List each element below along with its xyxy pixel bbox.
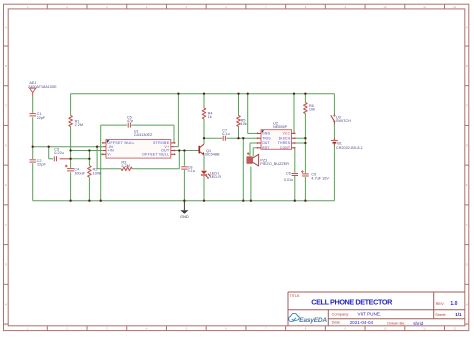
svg-text:Company:: Company: <box>332 312 350 317</box>
svg-text:RST: RST <box>262 146 269 150</box>
svg-text:SWITCH: SWITCH <box>336 119 351 123</box>
svg-text:C6: C6 <box>286 172 291 176</box>
svg-text:BC548B: BC548B <box>205 153 220 157</box>
svg-text:Sheet:: Sheet: <box>435 312 446 317</box>
svg-text:PIEZO_BUZZER: PIEZO_BUZZER <box>260 162 289 166</box>
svg-text:4.7uF 16V: 4.7uF 16V <box>311 176 329 180</box>
svg-text:TRIG: TRIG <box>262 136 271 140</box>
svg-text:0.01u: 0.01u <box>284 178 294 182</box>
svg-text:47p: 47p <box>127 119 133 123</box>
svg-text:Drawn By:: Drawn By: <box>387 321 405 326</box>
svg-text:GND: GND <box>180 215 189 219</box>
svg-text:22pF: 22pF <box>37 163 46 167</box>
svg-text:V-: V- <box>107 153 111 157</box>
svg-text:Date:: Date: <box>332 319 341 324</box>
svg-text:CELL PHONE DETECTOR: CELL PHONE DETECTOR <box>311 298 393 307</box>
svg-text:THRES: THRES <box>278 141 290 145</box>
svg-text:Q1: Q1 <box>206 149 211 153</box>
svg-text:1k: 1k <box>208 115 212 119</box>
svg-text:DISCH: DISCH <box>279 136 291 140</box>
svg-text:1.0: 1.0 <box>450 301 457 307</box>
svg-text:VCC: VCC <box>283 132 291 136</box>
svg-text:2.2M: 2.2M <box>121 164 129 168</box>
svg-text:OFFSET NULL: OFFSET NULL <box>107 141 134 145</box>
svg-text:OUT: OUT <box>161 149 169 153</box>
svg-text:CR2032-BS-8-1: CR2032-BS-8-1 <box>336 146 363 150</box>
svg-text:0.1u: 0.1u <box>222 132 229 136</box>
svg-text:100uF: 100uF <box>74 171 85 175</box>
svg-text:0.1u: 0.1u <box>188 169 195 173</box>
svg-text:2400AT18A100E: 2400AT18A100E <box>28 85 57 89</box>
svg-text:LED-R: LED-R <box>210 175 222 179</box>
svg-text:OFFSET NULL: OFFSET NULL <box>142 153 169 157</box>
svg-text:EasyEDA: EasyEDA <box>299 317 327 324</box>
svg-text:0.22u: 0.22u <box>54 151 64 155</box>
svg-text:NE555P: NE555P <box>273 125 288 129</box>
svg-text:GND: GND <box>262 132 270 136</box>
svg-text:CONT: CONT <box>280 146 290 150</box>
svg-text:22pF: 22pF <box>37 116 46 120</box>
svg-text:+IN: +IN <box>107 149 114 153</box>
svg-text:10k: 10k <box>241 122 247 126</box>
svg-text:10k: 10k <box>309 108 315 112</box>
svg-text:CA3130EZ: CA3130EZ <box>134 133 153 137</box>
svg-text:1/1: 1/1 <box>455 312 462 317</box>
svg-text:2021-04-04: 2021-04-04 <box>350 320 374 325</box>
svg-text:VIIT PUNE.: VIIT PUNE. <box>358 312 382 317</box>
svg-text:V+: V+ <box>164 145 169 149</box>
svg-text:B1: B1 <box>337 142 342 146</box>
svg-text:-IN: -IN <box>107 145 113 149</box>
svg-text:100K: 100K <box>93 171 102 175</box>
svg-text:OUT: OUT <box>262 141 270 145</box>
svg-text:2.2M: 2.2M <box>75 123 83 127</box>
svg-text:U1: U1 <box>134 129 139 133</box>
svg-text:REV:: REV: <box>436 301 445 306</box>
svg-text:TITLE:: TITLE: <box>290 294 301 298</box>
svg-text:STROBE: STROBE <box>153 141 170 145</box>
svg-text:shrid: shrid <box>413 321 423 326</box>
